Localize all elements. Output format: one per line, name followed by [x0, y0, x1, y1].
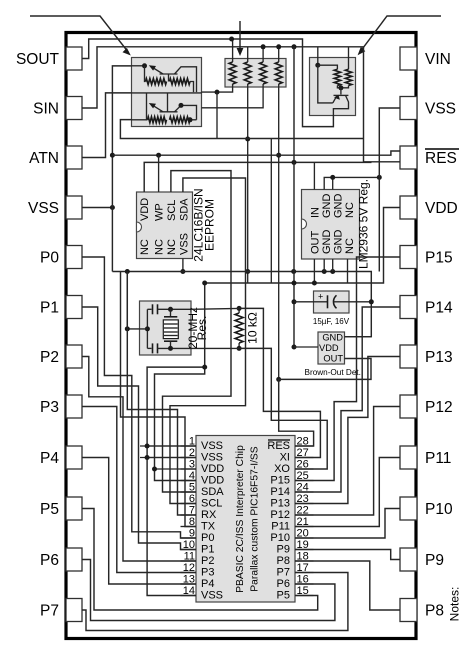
wire stub from junction — [216, 92, 218, 139]
svg-text:VDD: VDD — [139, 198, 151, 221]
svg-text:EEPROM: EEPROM — [203, 199, 217, 251]
svg-text:P6: P6 — [277, 578, 290, 590]
wire resonator top node — [147, 308, 151, 310]
resistor R3 (pack) — [260, 62, 267, 84]
transistor pair box Q1/Q2 (serial interface) — [132, 58, 202, 127]
svg-text:GND: GND — [333, 194, 345, 219]
pin P7 (left header) — [40, 599, 82, 622]
pin P1 (left header) — [40, 296, 82, 319]
wire R1 bottom to Q2 collector — [202, 84, 233, 92]
svg-text:VDD: VDD — [201, 463, 224, 475]
svg-text:Brown-Out Det.: Brown-Out Det. — [305, 368, 361, 377]
callout arrow to resistor pack — [237, 21, 244, 56]
wire P5 run — [82, 509, 318, 611]
chip pin 16 stub — [295, 583, 314, 585]
chip pin 19 stub — [295, 549, 314, 551]
svg-text:NC: NC — [344, 238, 356, 254]
svg-text:P0: P0 — [201, 532, 214, 544]
wire R3 top — [262, 47, 264, 62]
resonator label — [186, 307, 209, 349]
chip pin 12 stub — [181, 572, 197, 574]
wire R2a left riser — [147, 93, 148, 120]
chip pin 20 stub — [295, 537, 314, 539]
svg-text:XO: XO — [274, 463, 290, 475]
pin P6 (left header) — [40, 548, 82, 571]
wire crystal bottom leg — [170, 342, 172, 349]
junction — [110, 205, 115, 210]
svg-text:P14: P14 — [270, 486, 290, 498]
svg-text:NC: NC — [344, 202, 356, 218]
pin P11 (right header) — [400, 446, 451, 469]
svg-text:10 kΩ: 10 kΩ — [246, 312, 260, 344]
wire pin1 link — [147, 445, 196, 447]
callout line to VIN transistor — [358, 16, 441, 55]
svg-text:VSS: VSS — [201, 440, 223, 452]
svg-text:P4: P4 — [40, 450, 59, 467]
svg-text:IN: IN — [310, 207, 322, 218]
wire R4 top — [278, 47, 280, 62]
svg-text:LM2936 5V Reg.: LM2936 5V Reg. — [357, 179, 371, 269]
chip pin 17 stub — [295, 572, 314, 574]
svg-text:P5: P5 — [277, 590, 290, 602]
wire resonator entry branch — [127, 328, 147, 330]
junction — [292, 44, 297, 49]
junction — [292, 281, 297, 286]
VIN transistor box Q3 — [310, 58, 356, 116]
svg-text:NC: NC — [154, 239, 166, 255]
svg-text:P9: P9 — [425, 552, 444, 569]
wire SOUT to Q3 — [82, 39, 333, 127]
svg-text:P11: P11 — [271, 521, 290, 533]
wire Q1 bottom long — [120, 120, 363, 139]
svg-text:SOUT: SOUT — [16, 51, 60, 68]
junction — [188, 117, 193, 122]
chip pin 25 stub — [295, 480, 314, 482]
wire C2 to crystal bottom — [158, 347, 192, 349]
svg-text:VSS: VSS — [201, 452, 223, 464]
wire trunk x112 to VSS rail — [112, 66, 131, 272]
wire EEPROM VSS pin — [182, 259, 184, 272]
svg-text:P15: P15 — [270, 475, 290, 487]
resistor 10 kOhm — [235, 313, 243, 343]
svg-text:P15: P15 — [425, 250, 453, 267]
wire resonator bottom node — [147, 347, 151, 349]
wire 10k top — [238, 308, 240, 313]
svg-text:P12: P12 — [425, 399, 453, 416]
wire Q3 R5 feed — [318, 65, 338, 69]
chip pin 8 stub — [181, 526, 197, 528]
wire 10k bottom — [238, 343, 240, 348]
junction — [292, 160, 297, 165]
wire rail2 to LM bottom — [347, 259, 349, 283]
resistor R5 — [334, 69, 340, 85]
svg-text:VDD: VDD — [319, 343, 339, 353]
wire XO run — [239, 348, 327, 469]
junction — [179, 103, 184, 108]
capacitor C1 — [153, 304, 158, 314]
wire resonator left rail — [146, 309, 148, 348]
svg-text:P8: P8 — [277, 555, 290, 567]
resistor R1a — [146, 79, 167, 85]
junction — [261, 44, 266, 49]
chip pin 22 stub — [295, 514, 314, 516]
junction — [202, 365, 207, 370]
capacitor C3 15uF box — [314, 291, 350, 313]
svg-text:RES: RES — [267, 440, 290, 452]
wire P7 run — [82, 573, 348, 631]
chip pin 13 stub — [181, 583, 197, 585]
pin P8 (right header) — [400, 599, 444, 622]
wire resonator entry drop — [126, 272, 128, 329]
wire R3 bottom return to Q2 base — [202, 84, 264, 108]
junction — [276, 44, 281, 49]
voltage regulator U3 LM2936 — [302, 190, 360, 260]
wire pin2 link — [140, 457, 196, 459]
resistor R6 — [345, 69, 351, 85]
crystal plate bottom — [164, 340, 177, 342]
svg-text:TX: TX — [201, 521, 216, 533]
wire LM2936 GND top pin2 — [332, 177, 334, 189]
pin RES (right header) — [400, 146, 459, 169]
wire P15 run — [295, 257, 400, 481]
resistor R4 (pack) — [275, 62, 282, 84]
wire Q3 left entry — [317, 47, 319, 65]
svg-text:SDA: SDA — [178, 198, 190, 221]
chip pin 21 stub — [295, 526, 314, 528]
svg-text:VSS: VSS — [28, 200, 59, 217]
wire crystal top leg — [170, 309, 172, 316]
chip pin 7 stub — [181, 514, 197, 516]
wire pin2 link — [147, 457, 196, 459]
svg-text:NC: NC — [139, 239, 151, 255]
svg-text:P1: P1 — [40, 300, 59, 317]
svg-text:VDD: VDD — [201, 475, 224, 487]
wire Q3 collector drop — [340, 88, 342, 95]
chip pin 1 stub — [181, 445, 197, 447]
wire brown-out OUT to RES pin28 — [279, 359, 371, 447]
junction — [377, 175, 382, 180]
pin P15 (right header) — [400, 246, 453, 269]
wire P10 run — [295, 509, 400, 539]
junction — [245, 137, 250, 142]
svg-text:P7: P7 — [40, 603, 59, 620]
svg-text:SDA: SDA — [201, 486, 224, 498]
pin P4 (left header) — [40, 446, 82, 469]
svg-text:P0: P0 — [40, 250, 59, 267]
pin P2 (left header) — [40, 345, 82, 368]
chip pin 27 stub — [295, 457, 314, 459]
junction — [312, 281, 317, 286]
interpreter chip U1 box — [196, 436, 295, 603]
wire P0 run — [82, 257, 196, 538]
svg-text:+: + — [318, 292, 323, 302]
junction — [142, 63, 147, 68]
chip pin 15 stub — [295, 595, 314, 597]
capacitor C2 — [153, 343, 158, 353]
svg-text:P6: P6 — [40, 552, 59, 569]
svg-text:P10: P10 — [270, 532, 290, 544]
wire VSS rail horizontal — [112, 272, 371, 337]
chip pin 6 stub — [181, 503, 197, 505]
svg-text:NC: NC — [166, 239, 178, 255]
junction — [168, 346, 173, 351]
resistor R2a — [148, 117, 167, 123]
svg-text:SIN: SIN — [33, 101, 59, 118]
svg-text:VIN: VIN — [425, 51, 451, 68]
junction — [229, 37, 234, 42]
junction — [292, 345, 297, 350]
chip pin 24 stub — [295, 491, 314, 493]
wire P13 run — [295, 357, 400, 504]
crystal body — [163, 320, 178, 339]
svg-text:GND: GND — [321, 230, 333, 255]
wire P14 run — [295, 307, 400, 492]
wire Q1 entry rail — [132, 65, 145, 67]
wire VSS right to rail — [379, 108, 400, 272]
svg-text:P3: P3 — [201, 567, 214, 579]
svg-text:Res.: Res. — [195, 316, 209, 341]
EEPROM U2 24LC16B — [137, 192, 193, 259]
wire XI run — [239, 308, 320, 457]
wire Q3 right entry — [348, 47, 350, 69]
junction — [291, 269, 296, 274]
wire EEPROM SDA to chip pin6 — [170, 178, 246, 504]
wire brown-out GND — [345, 336, 372, 338]
pin P10 (right header) — [400, 497, 453, 520]
wire EEPROM VDD line — [144, 162, 371, 192]
svg-text:VSS: VSS — [201, 590, 223, 602]
junction — [110, 153, 115, 158]
EEPROM pin NC labels — [139, 239, 178, 255]
wire P8 run — [295, 561, 400, 610]
svg-text:Parallax custom PIC16F57-I/SS: Parallax custom PIC16F57-I/SS — [250, 446, 261, 591]
junction — [245, 269, 250, 274]
chip pin 23 stub — [295, 503, 314, 505]
pin P14 (right header) — [400, 296, 453, 319]
wire pin7 feed — [127, 272, 196, 516]
svg-text:15µF, 16V: 15µF, 16V — [313, 317, 350, 326]
resistor R2 (pack) — [244, 62, 251, 84]
svg-text:XI: XI — [280, 452, 290, 464]
junction — [168, 307, 173, 312]
svg-text:P13: P13 — [270, 498, 290, 510]
callout line to serial transistor pair — [30, 16, 131, 56]
junction — [330, 175, 335, 180]
pin SIN (left header) — [33, 97, 82, 120]
junction — [145, 326, 150, 331]
wire Q3 base drop — [318, 65, 333, 103]
wire brown-out VDD — [294, 346, 318, 348]
chip pin 14 stub — [181, 595, 197, 597]
transistor Q3 — [333, 95, 349, 116]
wire pin8 feed — [121, 272, 197, 527]
junction — [292, 299, 297, 304]
resistor R2b — [170, 117, 191, 123]
brown-out detector U4 box — [318, 332, 345, 364]
wire LM2936 OUT pin — [313, 259, 315, 283]
junction — [180, 269, 185, 274]
svg-text:P1: P1 — [201, 544, 214, 556]
wire LM2936 GND top pins — [324, 177, 379, 189]
wire VSS feed to chip — [155, 283, 205, 481]
svg-text:OUT: OUT — [323, 354, 343, 364]
wire P1 run — [82, 307, 196, 550]
junction — [125, 326, 130, 331]
svg-text:P13: P13 — [425, 349, 453, 366]
wire pin1 link — [140, 445, 196, 447]
junction — [156, 153, 161, 158]
pin SOUT (left header) — [16, 47, 82, 70]
chip pin 10 stub — [181, 549, 197, 551]
wire VDD rail2 — [205, 208, 400, 284]
pin ATN (left header) — [29, 146, 82, 169]
wire LM2936 IN pin — [313, 162, 315, 189]
pin P12 (right header) — [400, 395, 453, 418]
junction — [338, 85, 343, 90]
chip pin 5 stub — [181, 491, 197, 493]
svg-text:Notes:: Notes: — [448, 587, 462, 622]
capacitor C3 symbol — [314, 292, 349, 309]
svg-text:P12: P12 — [270, 509, 290, 521]
wire VSS left ring — [82, 207, 112, 209]
svg-text:GND: GND — [333, 230, 345, 255]
wire P11 run — [295, 458, 400, 527]
junction — [145, 455, 150, 460]
svg-text:PBASIC 2C/ISS Interpreter Chip: PBASIC 2C/ISS Interpreter Chip — [235, 445, 246, 593]
junction — [330, 269, 335, 274]
svg-text:P8: P8 — [425, 603, 444, 620]
wire Q1 emitter drop — [145, 66, 146, 82]
svg-text:P3: P3 — [40, 399, 59, 416]
wire R2 bottom — [247, 84, 249, 283]
svg-text:ATN: ATN — [29, 150, 59, 167]
wire VSS branch pins 1-2-14 — [147, 367, 205, 595]
svg-text:P7: P7 — [277, 567, 290, 579]
wire cap C3 link right — [349, 301, 371, 303]
svg-text:OUT: OUT — [310, 231, 322, 255]
svg-text:P5: P5 — [40, 501, 59, 518]
junction — [369, 299, 374, 304]
wire R2a left exit — [132, 119, 148, 121]
wire ATN to Q2 base — [82, 93, 132, 158]
svg-text:P9: P9 — [277, 544, 290, 556]
wire pin3 link — [155, 468, 197, 470]
junction — [237, 346, 242, 351]
crystal plate top — [164, 316, 177, 318]
junction — [125, 269, 130, 274]
wire cap C3 link left — [294, 301, 314, 303]
wire WP/RES line — [112, 151, 400, 155]
junction — [215, 90, 220, 95]
chip pin 28 stub — [295, 445, 314, 447]
wire LM2936 GND bottom pins — [323, 259, 325, 272]
svg-text:RES: RES — [425, 150, 457, 167]
pin VIN (right header) — [400, 47, 451, 70]
chip pin 9 stub — [181, 537, 197, 539]
transistor Q1 — [149, 65, 197, 92]
svg-text:VDD: VDD — [425, 200, 458, 217]
svg-text:P14: P14 — [425, 300, 453, 317]
pin P9 (right header) — [400, 548, 444, 571]
svg-text:GND: GND — [322, 333, 343, 343]
wire R4 bottom — [278, 84, 280, 379]
wire XI from resonator — [191, 307, 239, 310]
svg-text:VSS: VSS — [425, 101, 456, 118]
wire P3 run — [82, 407, 196, 573]
pin P3 (left header) — [40, 395, 82, 418]
svg-text:P11: P11 — [425, 450, 451, 467]
pin P5 (left header) — [40, 497, 82, 520]
junction — [152, 467, 157, 472]
resonator X1 box — [140, 301, 192, 355]
svg-text:P2: P2 — [40, 349, 59, 366]
wire VDD trunk x294 — [293, 47, 295, 347]
wire R1 top — [232, 39, 234, 62]
resistor pack box — [225, 59, 286, 88]
wire C1 to crystal top — [158, 308, 192, 310]
junction — [315, 63, 320, 68]
wire y139 drop — [270, 139, 272, 284]
junction — [276, 377, 281, 382]
transistor Q2 — [149, 93, 197, 120]
junction — [276, 153, 281, 158]
wire P6 run — [82, 560, 335, 621]
wire R2 top — [247, 47, 249, 62]
pin P0 (left header) — [40, 246, 82, 269]
pin P13 (right header) — [400, 345, 453, 368]
chip pin 18 stub — [295, 560, 314, 562]
svg-text:P10: P10 — [425, 501, 453, 518]
junction — [202, 281, 207, 286]
svg-text:SCL: SCL — [166, 200, 178, 221]
resistor R1 (pack) — [229, 62, 236, 84]
wire SIN rail to RES — [82, 47, 400, 162]
pin VSS (left header) — [28, 196, 82, 219]
wire EEPROM WP pin — [158, 155, 160, 192]
wire LM2936 GND bottom pin2 — [332, 259, 334, 272]
pin VSS (right header) — [400, 97, 456, 120]
svg-text:VSS: VSS — [178, 233, 190, 255]
chip pin 3 stub — [181, 468, 197, 470]
wire Q2 base rail — [132, 92, 202, 94]
wire R1b right leg — [190, 82, 194, 93]
svg-text:P4: P4 — [201, 578, 214, 590]
chip pin 28 name RES — [267, 440, 290, 452]
chip pin 26 stub — [295, 468, 314, 470]
resistor R1b — [170, 79, 191, 85]
junction — [237, 306, 242, 311]
wire R5/R6 tie — [337, 86, 348, 88]
svg-text:SCL: SCL — [201, 498, 222, 510]
wire EEPROM SCL to chip pin5 — [163, 171, 232, 492]
wire P12 run — [295, 407, 400, 516]
chip pin 2 stub — [181, 457, 197, 459]
chip pin 4 stub — [181, 480, 197, 482]
wire P4 run — [82, 458, 196, 585]
svg-text:GND: GND — [321, 194, 333, 219]
chip pin 11 stub — [181, 560, 197, 562]
wire P2 run — [82, 357, 196, 562]
pin VDD (right header) — [400, 196, 458, 219]
wire XO from resonator — [191, 347, 239, 349]
junction — [322, 269, 327, 274]
wire P9 run — [295, 550, 400, 560]
svg-text:WP: WP — [154, 203, 166, 221]
wire R2b right join — [190, 119, 197, 121]
junction — [145, 444, 150, 449]
svg-text:RX: RX — [201, 509, 217, 521]
svg-text:P2: P2 — [201, 555, 214, 567]
